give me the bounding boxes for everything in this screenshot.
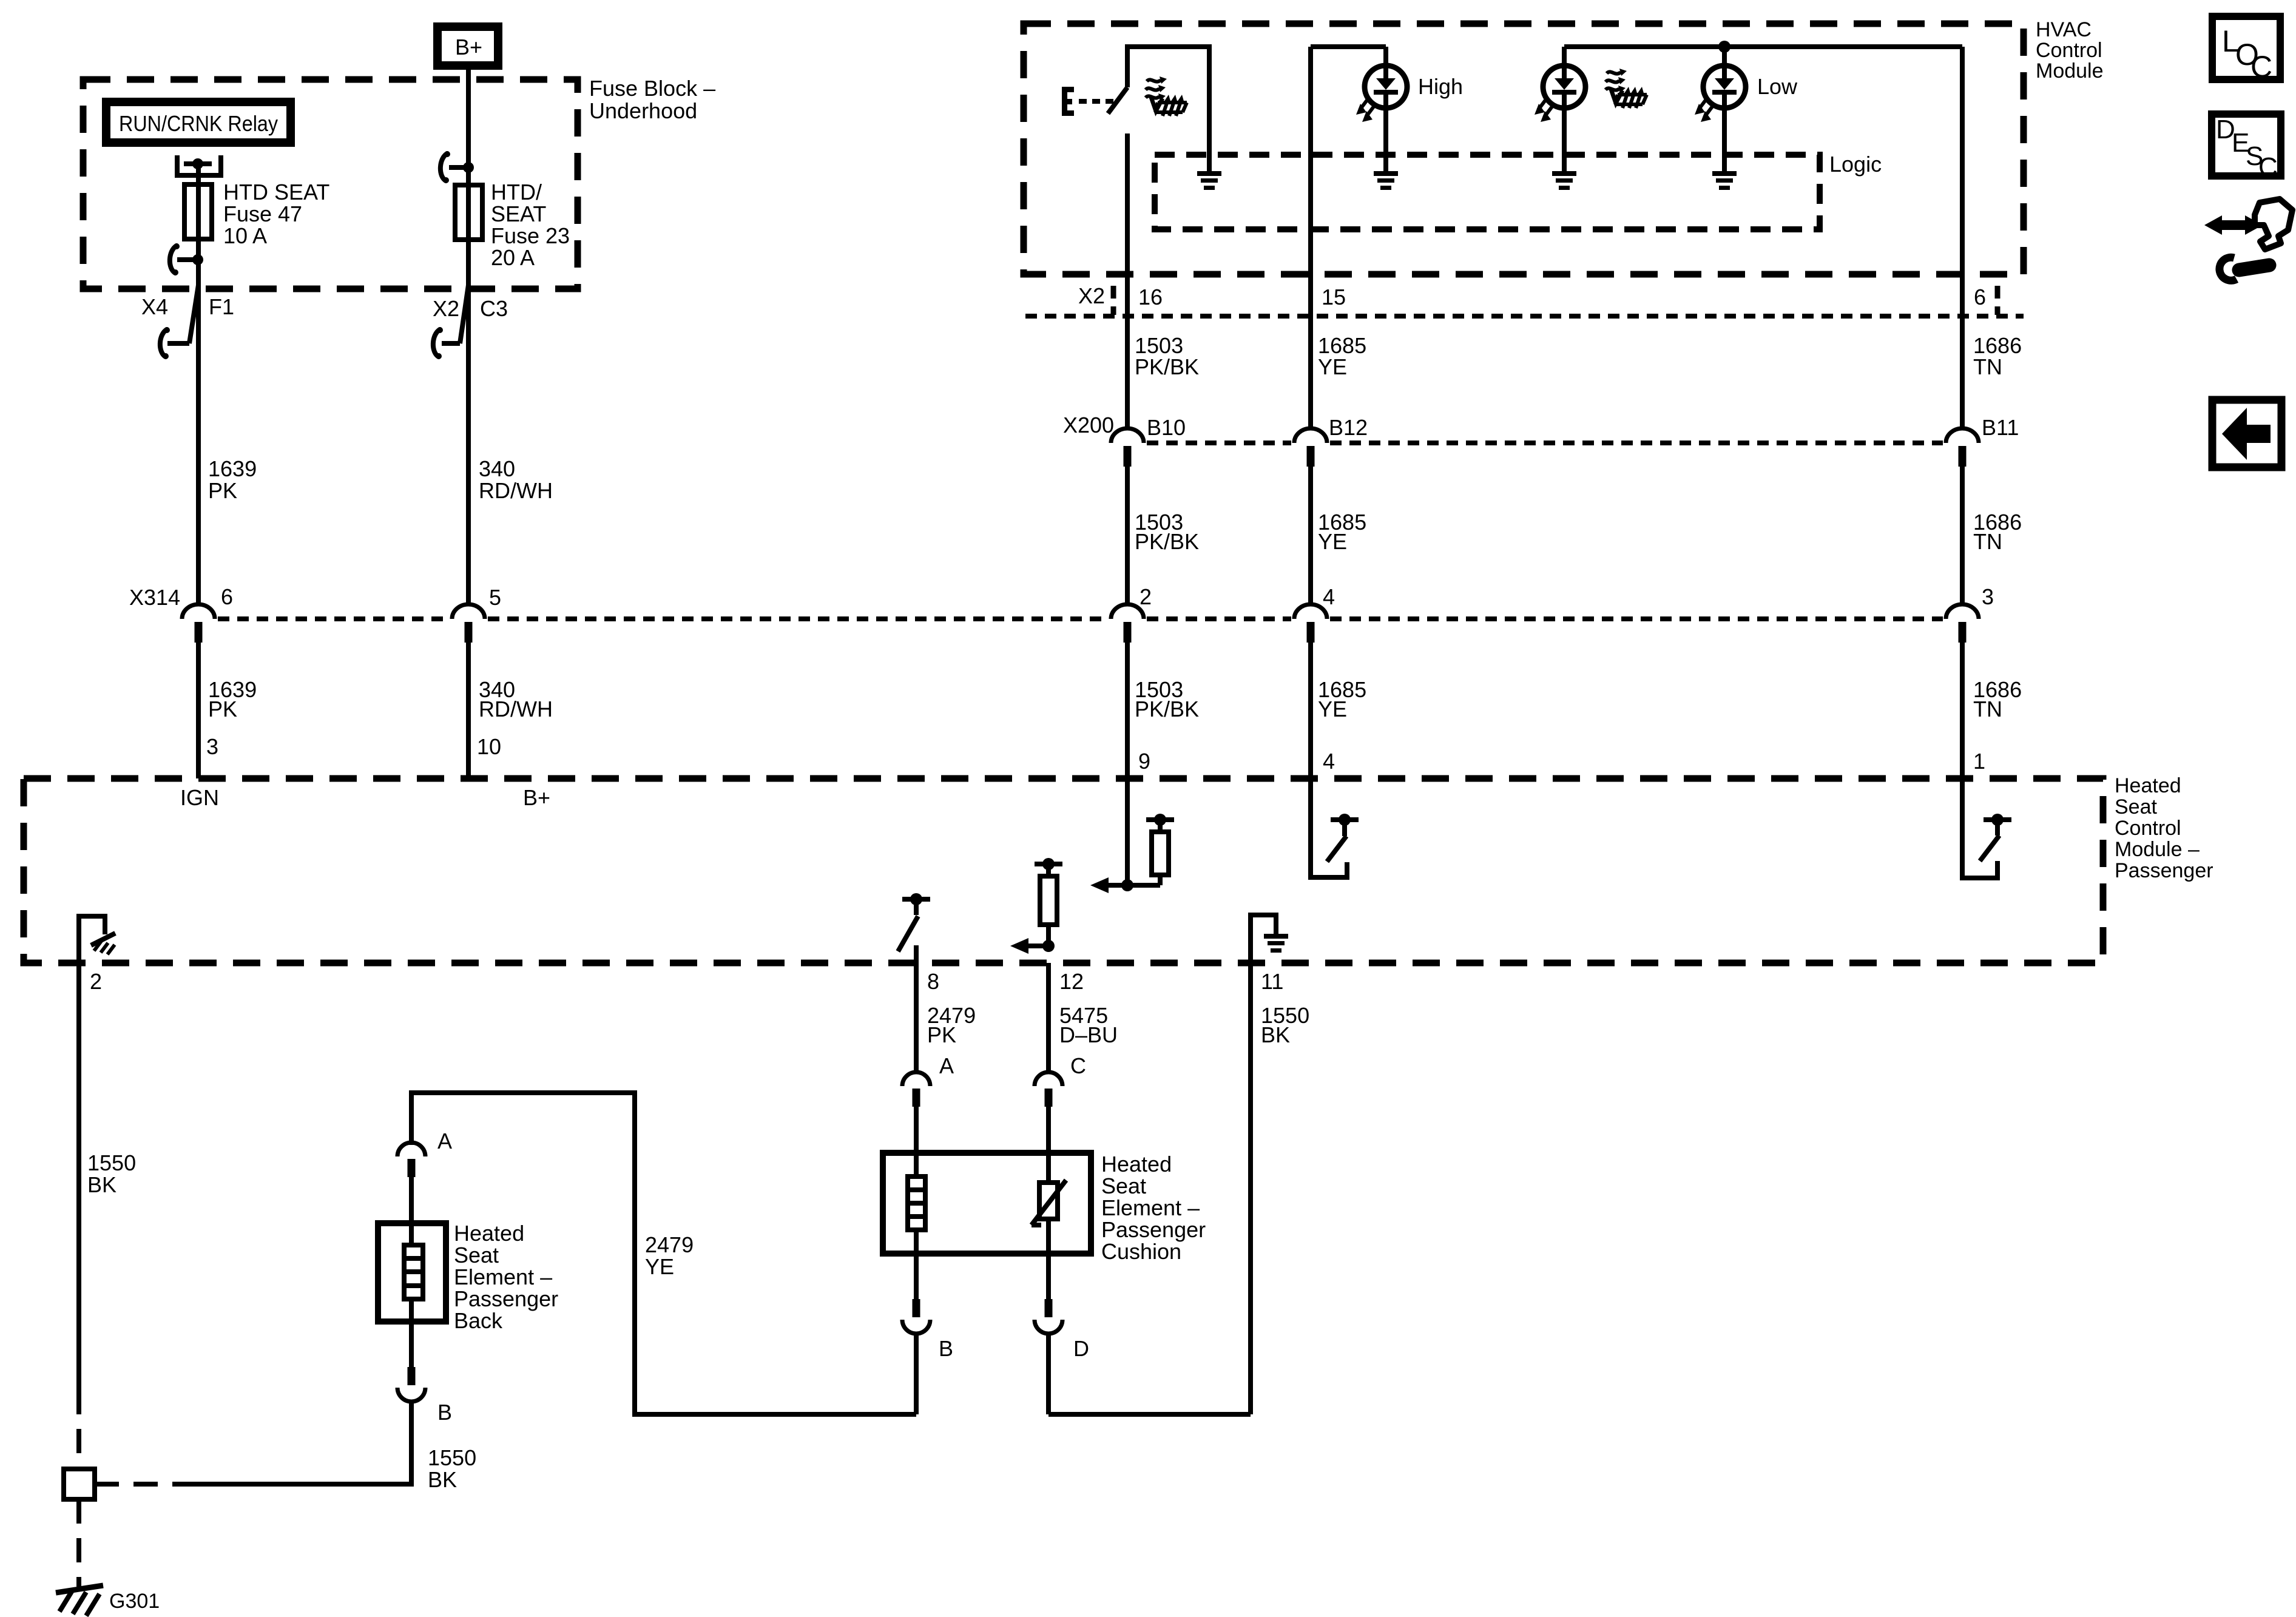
wire B+ to fuse 23	[466, 70, 471, 167]
connector A back	[397, 1129, 452, 1177]
wire thermistor to D	[1046, 1219, 1051, 1300]
svg-text:TN: TN	[1973, 697, 2002, 721]
connector C cushion	[1035, 1053, 1086, 1107]
wire label 2479 YE	[645, 1232, 694, 1279]
connector B cushion	[902, 1299, 953, 1361]
svg-text:C: C	[2250, 50, 2272, 84]
svg-text:B12: B12	[1329, 415, 1368, 440]
ground switch output	[1197, 171, 1221, 190]
node E	[1062, 87, 1074, 116]
connector X314 pin 3	[1946, 584, 1994, 643]
svg-text:6: 6	[221, 584, 233, 609]
wire label 1685 YE	[1318, 333, 1366, 379]
wire label 1639 PK	[208, 677, 257, 721]
HVAC Control Module label	[2036, 18, 2104, 83]
Heated Seat Control Module - Passenger label	[2115, 774, 2213, 882]
fuse F23 label	[491, 180, 570, 270]
svg-text:B+: B+	[455, 35, 482, 59]
svg-text:Fuse 23: Fuse 23	[491, 223, 570, 248]
svg-text:PK/BK: PK/BK	[1135, 697, 1199, 721]
wire 2479 YE run	[411, 1093, 916, 1414]
wire label 1503 PK/BK	[1135, 333, 1199, 379]
wire dashed to G301	[76, 1499, 81, 1587]
fuse F47 bottom terminal clip	[170, 243, 203, 275]
svg-text:2: 2	[90, 969, 102, 994]
svg-text:1550: 1550	[428, 1445, 476, 1470]
svg-text:X200: X200	[1063, 413, 1114, 437]
svg-text:D: D	[1073, 1336, 1089, 1361]
svg-text:SEAT: SEAT	[491, 201, 546, 226]
wire 1639 PK lower	[196, 643, 201, 778]
wire splice to element B	[181, 1401, 411, 1484]
arrow pin 12	[1010, 938, 1028, 954]
Heated Seat Control Module - Passenger box	[24, 778, 2103, 963]
connector X200 pin B12	[1294, 415, 1368, 467]
svg-text:Passenger: Passenger	[1101, 1217, 1206, 1242]
svg-text:6: 6	[1974, 285, 1986, 309]
svg-text:B: B	[437, 1400, 452, 1425]
resistor pin 9 pull-up	[1146, 814, 1174, 885]
wire label 1686 TN	[1973, 510, 2022, 554]
svg-text:BK: BK	[87, 1172, 116, 1197]
svg-text:BK: BK	[1261, 1022, 1290, 1047]
connector X314 pin 6	[129, 584, 233, 643]
svg-text:3: 3	[1982, 584, 1994, 609]
wire junction pin 12	[1025, 940, 1055, 952]
wire label 1503 PK/BK	[1135, 510, 1199, 554]
connector X2 tick right	[1995, 286, 2001, 315]
svg-text:Element –: Element –	[454, 1264, 552, 1289]
svg-text:Heated: Heated	[1101, 1152, 1172, 1176]
icon DESC box	[2212, 114, 2281, 182]
svg-text:16: 16	[1138, 285, 1163, 309]
svg-text:3: 3	[206, 734, 218, 759]
Fuse Block - Underhood label	[589, 76, 715, 123]
svg-text:RD/WH: RD/WH	[479, 697, 553, 721]
svg-text:D–BU: D–BU	[1059, 1022, 1118, 1047]
fuse F47 label	[223, 180, 329, 248]
svg-text:C: C	[1070, 1053, 1086, 1078]
svg-text:20 A: 20 A	[491, 245, 535, 270]
wire E dashes	[1079, 99, 1118, 104]
heated seat element passenger cushion box	[883, 1153, 1091, 1254]
fuse F47 top terminal bracket	[177, 155, 221, 175]
svg-text:Control: Control	[2036, 39, 2102, 62]
svg-text:X314: X314	[129, 585, 180, 610]
svg-text:PK/BK: PK/BK	[1135, 354, 1199, 379]
wire dashed to splice	[76, 1390, 81, 1469]
svg-text:Underhood: Underhood	[589, 98, 697, 123]
connector X2 C3	[433, 285, 508, 359]
wire A to element	[914, 1107, 919, 1176]
svg-text:IGN: IGN	[180, 785, 219, 810]
wire label 340 RD/WH	[479, 456, 553, 503]
svg-text:10 A: 10 A	[223, 223, 267, 248]
connector X314 pin 4	[1294, 584, 1335, 643]
wire 11 to splice	[1248, 963, 1253, 1414]
ground Low LED 2	[1712, 171, 1737, 190]
heating element cushion	[908, 1176, 925, 1230]
svg-text:2: 2	[1140, 584, 1152, 609]
svg-text:Passenger: Passenger	[454, 1286, 558, 1311]
svg-text:HTD/: HTD/	[491, 180, 542, 204]
wire 1685 YE seg2	[1308, 467, 1313, 605]
junction dot	[1718, 41, 1730, 53]
wire label 1550 BK	[1261, 1003, 1309, 1047]
HVAC Control Module box	[1024, 24, 2024, 274]
svg-text:Fuse Block –: Fuse Block –	[589, 76, 715, 101]
svg-text:B11: B11	[1982, 415, 2019, 440]
svg-text:Back: Back	[454, 1308, 503, 1333]
svg-text:C: C	[2258, 152, 2278, 182]
svg-text:YE: YE	[1318, 697, 1347, 721]
svg-text:C3: C3	[480, 296, 508, 321]
svg-text:Heated: Heated	[454, 1221, 524, 1246]
svg-text:PK: PK	[208, 697, 237, 721]
connector X200 pin B10	[1111, 415, 1186, 467]
battery feed B+ box	[437, 27, 498, 66]
switch pin 1	[1962, 778, 2011, 878]
wire 1639 PK upper	[196, 260, 201, 605]
svg-text:15: 15	[1322, 285, 1346, 309]
wire label 1639 PK	[208, 456, 257, 503]
svg-text:X4: X4	[141, 294, 168, 319]
svg-text:YE: YE	[645, 1254, 674, 1279]
svg-text:B: B	[939, 1336, 953, 1361]
wire label 1685 YE	[1318, 510, 1366, 554]
svg-text:4: 4	[1323, 584, 1335, 609]
wire 340 RD/WH upper	[466, 289, 471, 605]
connector X4 F1	[141, 285, 234, 359]
svg-text:2479: 2479	[645, 1232, 694, 1257]
wire 1685 YE seg1	[1308, 47, 1313, 429]
wire 1503 PK/BK seg2	[1125, 467, 1130, 605]
svg-text:Module: Module	[2036, 59, 2104, 83]
svg-text:B10: B10	[1147, 415, 1186, 440]
Fuse Block - Underhood box	[83, 79, 578, 289]
fuse F47 HTD SEAT 10A	[184, 164, 212, 259]
relay RUN/CRNK	[106, 102, 291, 143]
wire A to back element	[409, 1177, 414, 1245]
wire label 1686 TN	[1973, 333, 2022, 379]
switch pin 4	[1311, 778, 1359, 877]
svg-text:Seat: Seat	[1101, 1173, 1146, 1198]
LED High indicator	[1356, 47, 1407, 174]
connector X2 tick left	[1111, 286, 1116, 315]
wire 8 to connector A	[914, 945, 919, 1074]
ground internal pin 11	[1251, 915, 1288, 963]
heated seat icon 2	[1606, 69, 1647, 108]
wire 1686 TN seg2	[1960, 467, 1965, 605]
wire to High LED	[1311, 44, 1386, 49]
svg-text:PK/BK: PK/BK	[1135, 529, 1199, 554]
svg-text:1: 1	[1973, 749, 1985, 774]
ground G301	[56, 1585, 160, 1616]
svg-text:Passenger: Passenger	[2115, 859, 2213, 882]
svg-text:9: 9	[1138, 749, 1150, 774]
connector X314 pin 2	[1111, 584, 1152, 643]
wire 1503 PK/BK seg3	[1125, 643, 1130, 885]
splice S-connector	[64, 1469, 95, 1499]
svg-text:A: A	[437, 1129, 452, 1153]
wire 1550 BK ground leg	[76, 963, 81, 1390]
ground internal pin 2	[79, 916, 115, 963]
heated seat element passenger back label	[454, 1221, 558, 1333]
svg-text:A: A	[939, 1053, 954, 1078]
svg-text:340: 340	[479, 456, 515, 481]
wire label 1503 PK/BK	[1135, 677, 1199, 721]
wire 1686 TN seg3	[1960, 643, 1965, 778]
svg-text:Heated: Heated	[2115, 774, 2181, 797]
connector X314 pin 5	[452, 585, 501, 643]
svg-text:Low: Low	[1757, 74, 1798, 99]
icon repair wrench	[2204, 199, 2292, 280]
wire dashed splice to element	[95, 1482, 182, 1487]
wire Low LED rail	[1564, 44, 1962, 49]
svg-text:Cushion: Cushion	[1101, 1239, 1181, 1264]
LED Low indicator 1	[1535, 47, 1585, 174]
wire 1503 PK/BK seg1	[1125, 133, 1130, 429]
LED Low indicator 2	[1695, 47, 1746, 174]
svg-text:TN: TN	[1973, 354, 2002, 379]
ground Low LED 1	[1552, 171, 1576, 190]
wire element to B back	[409, 1299, 414, 1368]
heated seat element passenger back box	[378, 1223, 446, 1322]
wire label 1686 TN	[1973, 677, 2022, 721]
svg-text:TN: TN	[1973, 529, 2002, 554]
connector D cushion	[1035, 1299, 1089, 1361]
svg-text:YE: YE	[1318, 354, 1347, 379]
svg-text:10: 10	[477, 734, 501, 759]
svg-text:PK: PK	[927, 1022, 956, 1047]
wire element to B	[914, 1230, 919, 1300]
wire 1685 YE seg3	[1308, 643, 1313, 778]
svg-text:HTD SEAT: HTD SEAT	[223, 180, 329, 204]
wire label 5475 D-BU	[1059, 1003, 1118, 1047]
svg-text:5: 5	[489, 585, 501, 610]
wire B to splice YE	[914, 1332, 919, 1414]
fuse F23 top terminal clip	[441, 151, 474, 183]
resistor pin 12 pull-up	[1035, 858, 1062, 946]
heated seat icon 1	[1146, 76, 1187, 116]
logic box	[1155, 155, 1820, 229]
svg-text:X2: X2	[1078, 283, 1105, 308]
connector B back	[397, 1367, 452, 1425]
svg-text:Module –: Module –	[2115, 838, 2200, 861]
svg-text:1550: 1550	[87, 1150, 136, 1175]
wire junction pin 9	[1104, 879, 1160, 891]
connector A cushion	[902, 1053, 954, 1107]
wire label 340 RD/WH	[479, 677, 553, 721]
connector X200 pin B11	[1946, 415, 2019, 467]
svg-text:8: 8	[927, 969, 939, 994]
svg-text:HVAC: HVAC	[2036, 18, 2092, 41]
wire label 2479 PK	[927, 1003, 976, 1047]
icon LOC box	[2212, 16, 2280, 84]
svg-text:Element –: Element –	[1101, 1195, 1200, 1220]
wire D to 1550 BK	[1048, 1332, 1251, 1414]
heating element back	[404, 1245, 423, 1299]
svg-text:B+: B+	[523, 785, 550, 810]
svg-text:Seat: Seat	[454, 1243, 499, 1268]
svg-text:G301: G301	[109, 1590, 160, 1613]
wire label 1550 BK back	[428, 1445, 476, 1492]
svg-text:4: 4	[1323, 749, 1335, 774]
fuse F23 HTD/SEAT 20A	[455, 167, 482, 289]
svg-text:Control: Control	[2115, 817, 2181, 840]
wire C to thermistor	[1046, 1107, 1051, 1183]
wire 340 RD/WH lower	[466, 643, 471, 778]
thermistor cushion temp sensor	[1032, 1180, 1066, 1225]
heated seat element passenger cushion label	[1101, 1152, 1206, 1264]
icon back arrow box	[2212, 400, 2281, 467]
wire in back box top	[409, 1223, 414, 1245]
wire 1686 TN seg1	[1960, 47, 1965, 429]
arrow pin 9	[1090, 877, 1109, 893]
switch S1 heated seat	[1108, 47, 1209, 174]
svg-text:RUN/CRNK Relay: RUN/CRNK Relay	[119, 111, 278, 136]
ground High LED	[1374, 171, 1398, 190]
connector X314 row	[218, 616, 1943, 621]
svg-text:YE: YE	[1318, 529, 1347, 554]
wire label 1550 BK	[87, 1150, 136, 1197]
svg-text:PK: PK	[208, 478, 237, 503]
svg-text:F1: F1	[209, 294, 234, 319]
svg-text:1639: 1639	[208, 456, 257, 481]
svg-text:X2: X2	[433, 296, 459, 321]
wire label 1685 YE	[1318, 677, 1366, 721]
svg-text:Fuse 47: Fuse 47	[223, 201, 302, 226]
connector X2 row	[1025, 314, 2024, 319]
svg-text:Seat: Seat	[2115, 795, 2157, 819]
svg-text:11: 11	[1261, 969, 1283, 994]
svg-text:12: 12	[1059, 969, 1084, 994]
svg-text:Logic: Logic	[1829, 152, 1882, 177]
svg-text:High: High	[1418, 74, 1463, 99]
svg-text:RD/WH: RD/WH	[479, 478, 553, 503]
svg-text:BK: BK	[428, 1467, 457, 1492]
wire 12 to connector C	[1046, 963, 1051, 1074]
switch pin 8	[898, 893, 930, 951]
connector X200 row	[1147, 441, 1943, 445]
